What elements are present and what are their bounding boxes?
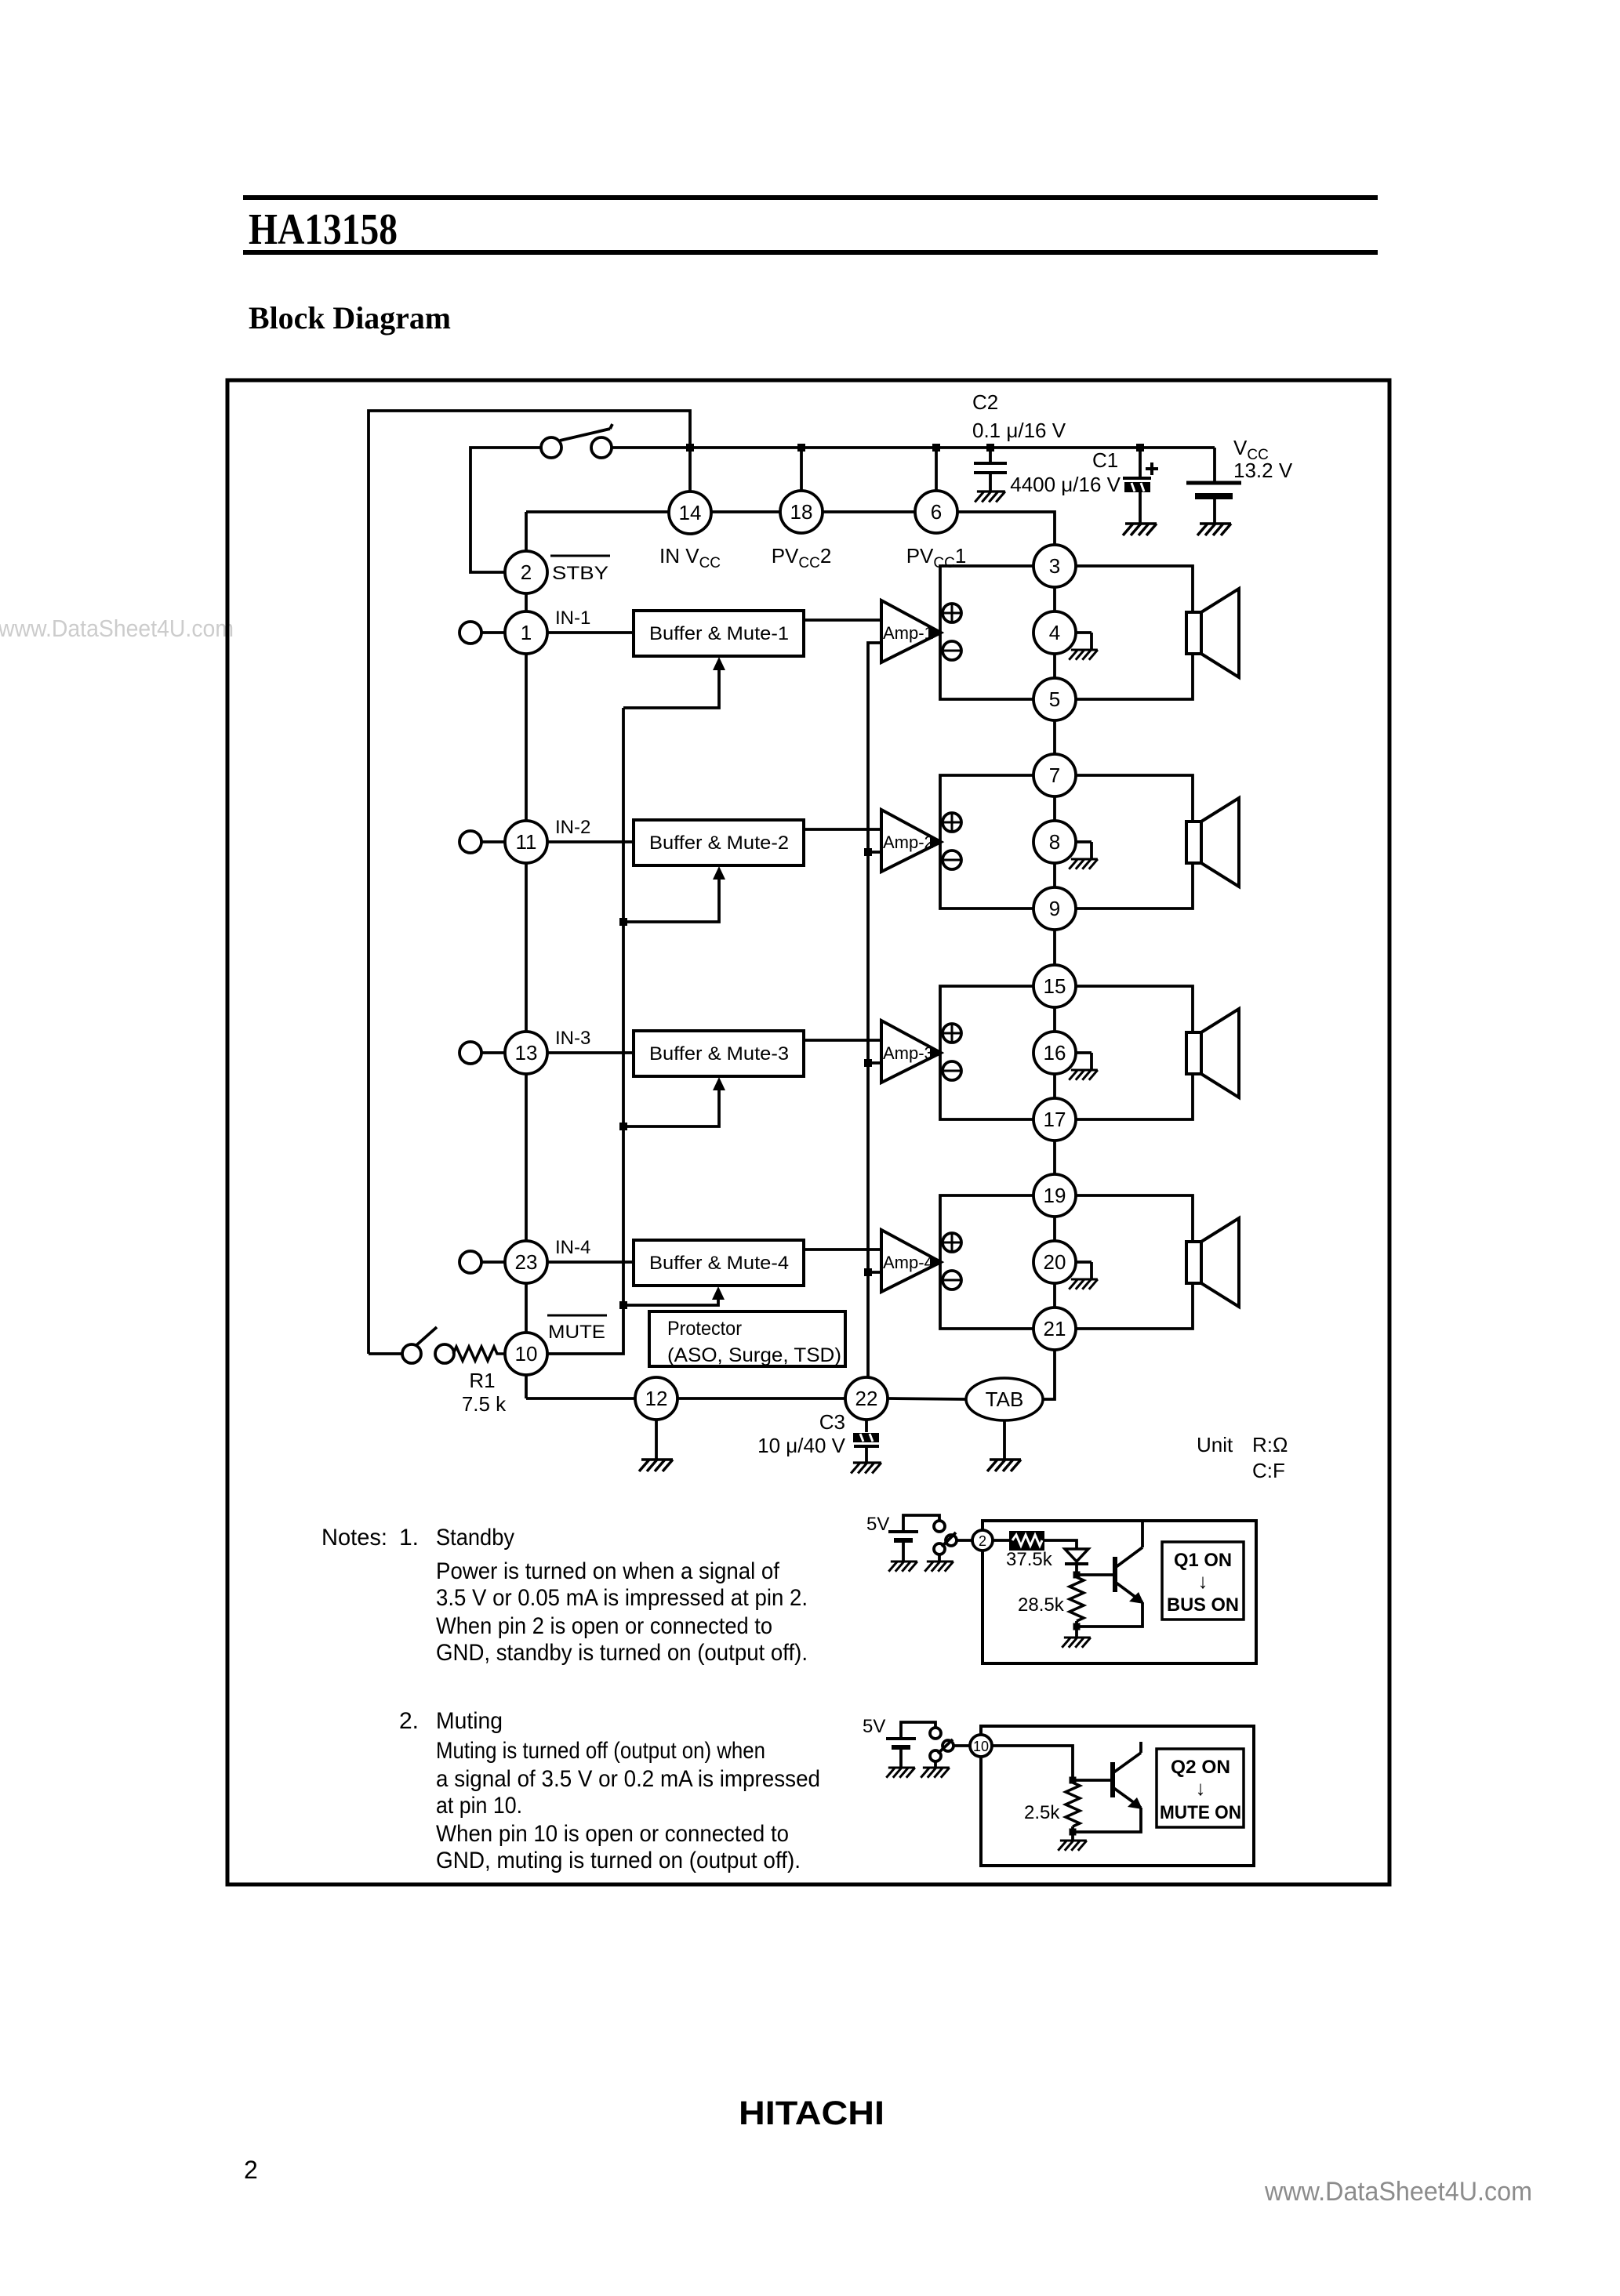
input terminal IN-2	[459, 831, 504, 853]
ground (note2 emitter)	[1058, 1841, 1087, 1851]
wire	[1053, 587, 1056, 611]
ground (C1)	[1123, 524, 1157, 535]
junction	[932, 444, 940, 452]
speaker ch2	[1186, 798, 1239, 887]
junction	[986, 444, 994, 452]
svg-text:5: 5	[1049, 687, 1060, 711]
pin 21	[1033, 1308, 1076, 1350]
svg-text:13.2 V: 13.2 V	[1233, 459, 1293, 482]
wire: buffer 4 to amp	[804, 1248, 881, 1251]
svg-text:Unit: Unit	[1197, 1433, 1233, 1456]
svg-text:2.5k: 2.5k	[1024, 1802, 1060, 1823]
svg-text:Amp-4: Amp-4	[883, 1253, 934, 1272]
wire	[953, 1744, 971, 1747]
svg-text:3: 3	[1049, 554, 1060, 578]
ground (note2 switch)	[921, 1768, 950, 1778]
pin 14	[669, 491, 711, 534]
svg-text:↓: ↓	[1198, 1569, 1208, 1593]
svg-text:Muting is turned off (output o: Muting is turned off (output on) when	[436, 1738, 765, 1764]
wire: feedback to amp 4	[868, 1271, 881, 1274]
note2: resistor 2.5k	[1024, 1783, 1080, 1826]
header top rule	[243, 195, 1378, 200]
svg-text:7.5 k: 7.5 k	[462, 1392, 507, 1416]
pin 5	[1033, 678, 1076, 720]
ground (pin 4)	[1069, 633, 1098, 660]
wire: pin 19 to speaker	[1076, 1195, 1193, 1242]
wire	[938, 1554, 941, 1561]
pin 11	[505, 821, 547, 863]
node + output ch1	[943, 604, 961, 622]
wire	[1053, 1007, 1056, 1032]
svg-text:IN VCC: IN VCC	[659, 544, 721, 571]
junction	[619, 1301, 627, 1309]
svg-text:11: 11	[516, 830, 537, 854]
wire	[1053, 1074, 1056, 1098]
input terminal IN-4	[459, 1251, 504, 1273]
svg-text:Buffer & Mute-1: Buffer & Mute-1	[649, 623, 789, 644]
wire: left pin column chain	[525, 593, 528, 1398]
svg-text:IN-2: IN-2	[555, 817, 590, 838]
svg-text:10: 10	[515, 1342, 538, 1366]
svg-text:R1: R1	[469, 1369, 495, 1392]
svg-text:9: 9	[1049, 897, 1060, 920]
svg-text:Q2 ON: Q2 ON	[1171, 1757, 1230, 1778]
svg-text:Amp-1: Amp-1	[883, 623, 934, 643]
ground (note1 battery)	[888, 1561, 917, 1572]
wire: channel chain	[1053, 930, 1056, 985]
node - output ch2	[943, 851, 961, 869]
wire: pin6 stub	[935, 448, 938, 491]
wire	[957, 1539, 973, 1542]
buffer & mute 3 box	[634, 1031, 804, 1076]
svg-text:C1: C1	[1092, 448, 1118, 472]
op-amp Amp-2	[881, 810, 941, 872]
junction	[864, 1268, 872, 1276]
note2: pin 10 terminal	[970, 1735, 992, 1757]
capacitor C1	[1010, 448, 1158, 524]
svg-text:3.5 V or 0.05 mA is impressed: 3.5 V or 0.05 mA is impressed at pin 2.	[436, 1585, 808, 1611]
svg-text:MUTE: MUTE	[548, 1322, 605, 1343]
svg-text:10: 10	[973, 1739, 989, 1754]
wire	[888, 1398, 966, 1399]
wire: pin 11 to buffer	[547, 840, 634, 843]
svg-text:2: 2	[979, 1533, 986, 1549]
ground (note1 emitter)	[1062, 1638, 1091, 1648]
ground (note1 switch)	[924, 1561, 953, 1572]
label R1 7.5k	[462, 1369, 507, 1416]
switch S2 (mute)	[402, 1327, 454, 1363]
note1: diode	[1065, 1549, 1088, 1564]
svg-text:23: 23	[515, 1250, 538, 1274]
amp 2 output arrow	[930, 836, 943, 847]
wire: pin18 stub	[800, 448, 803, 491]
notes text block	[321, 1525, 820, 1873]
wire	[1053, 1217, 1056, 1241]
wire	[992, 1746, 1073, 1783]
arrow into buffer 3	[713, 1077, 725, 1090]
node + output ch3	[943, 1024, 961, 1043]
svg-text:Q1 ON: Q1 ON	[1174, 1550, 1232, 1571]
wire	[1075, 1621, 1078, 1638]
wire: pin 17 to speaker	[1076, 1074, 1193, 1119]
wire: pin 15 to speaker	[1076, 986, 1193, 1032]
wire: buffer 2 to amp	[804, 828, 881, 831]
svg-text:Protector: Protector	[667, 1318, 742, 1340]
ground (battery)	[1197, 524, 1231, 535]
wire: pin 21 to speaker	[1076, 1283, 1193, 1329]
wire: pin 13 to buffer	[547, 1051, 634, 1054]
note2: enclosure box	[981, 1726, 1254, 1866]
wire: pin 7 to speaker	[1076, 775, 1193, 822]
svg-text:28.5k: 28.5k	[1018, 1594, 1065, 1616]
wire: pin 21 to TAB	[1044, 1350, 1055, 1399]
capacitor C3	[757, 1410, 879, 1463]
junction	[1070, 1777, 1077, 1784]
label STBY	[550, 556, 610, 584]
svg-text:HA13158: HA13158	[249, 205, 398, 254]
amp 4 output arrow	[930, 1257, 943, 1268]
svg-text:17: 17	[1044, 1108, 1066, 1131]
arrow into buffer 1	[713, 657, 725, 670]
op-amp Amp-3	[881, 1021, 941, 1083]
wire: mute branch ch4	[623, 1300, 718, 1305]
pin 6	[915, 491, 957, 533]
svg-text:21: 21	[1044, 1317, 1066, 1340]
junction	[797, 444, 805, 452]
wire	[1044, 1540, 1077, 1549]
junction	[1070, 1829, 1077, 1836]
junction	[864, 848, 872, 856]
pin 10	[505, 1333, 547, 1375]
TAB terminal	[966, 1378, 1043, 1420]
pin 9	[1033, 887, 1076, 930]
svg-text:IN-3: IN-3	[555, 1028, 590, 1049]
ground (pin 16)	[1069, 1053, 1098, 1080]
speaker ch1	[1186, 589, 1239, 677]
svg-text:4: 4	[1049, 621, 1060, 644]
svg-text:22: 22	[855, 1387, 878, 1410]
transistor Q2	[1073, 1742, 1142, 1832]
svg-text:2: 2	[244, 2156, 258, 2184]
wire: channel chain	[1053, 1141, 1056, 1195]
node - output ch1	[943, 641, 961, 660]
wire: pin 5 to speaker	[1076, 654, 1193, 699]
wire: pin12 ground stub	[655, 1420, 658, 1460]
svg-text:4400 μ/16 V: 4400 μ/16 V	[1010, 473, 1121, 496]
wire: base	[1077, 1573, 1113, 1576]
wire	[1053, 1283, 1056, 1308]
buffer & mute 1 box	[634, 611, 804, 656]
svg-text:↓: ↓	[1196, 1776, 1206, 1800]
transistor Q1	[1077, 1521, 1144, 1627]
pin 20	[1033, 1241, 1076, 1283]
pin 16	[1033, 1032, 1076, 1074]
note2: battery 5V	[886, 1722, 935, 1768]
svg-text:12: 12	[645, 1387, 668, 1410]
svg-text:When pin 10 is open or connect: When pin 10 is open or connected to	[436, 1821, 789, 1847]
svg-text:37.5k: 37.5k	[1006, 1549, 1053, 1570]
svg-text:8: 8	[1049, 830, 1060, 854]
note2: result box Q2 ON / MUTE ON	[1157, 1749, 1244, 1827]
wire: buffer 1 to amp	[804, 618, 881, 622]
buffer & mute 4 box	[634, 1240, 804, 1286]
pin 19	[1033, 1174, 1076, 1217]
svg-text:MUTE ON: MUTE ON	[1160, 1802, 1241, 1823]
node - output ch4	[943, 1271, 961, 1289]
svg-text:R:Ω: R:Ω	[1252, 1433, 1288, 1456]
pin 1	[505, 611, 547, 654]
wire	[1053, 654, 1056, 678]
svg-text:C3: C3	[819, 1410, 845, 1434]
svg-text:10 μ/40 V: 10 μ/40 V	[757, 1434, 845, 1457]
svg-text:20: 20	[1044, 1250, 1066, 1274]
wire	[1053, 796, 1056, 821]
ground (note2 battery)	[886, 1768, 915, 1778]
note1: resistor 28.5k	[1018, 1577, 1084, 1621]
arrow into buffer 2	[713, 866, 725, 880]
wire: IN Vcc row	[526, 510, 669, 513]
wire: feedback to amp 3	[868, 1061, 881, 1065]
pin 7	[1033, 754, 1076, 796]
junction	[864, 1059, 872, 1067]
svg-text:GND, standby is turned on (out: GND, standby is turned on (output off).	[436, 1640, 808, 1666]
wire: feedback to amp 2	[868, 851, 881, 854]
ground (C2)	[975, 491, 1005, 502]
svg-text:STBY: STBY	[552, 563, 608, 584]
wire: output bracket ch3	[940, 986, 1033, 1119]
pin 13	[505, 1032, 547, 1074]
svg-text:15: 15	[1044, 974, 1066, 998]
svg-text:TAB: TAB	[986, 1387, 1024, 1411]
speaker ch4	[1186, 1218, 1239, 1307]
pin 23	[505, 1241, 547, 1283]
wire: top-left loop to pin 14	[369, 411, 690, 1354]
note1: enclosure box	[983, 1521, 1256, 1663]
svg-text:Power is turned on when a sign: Power is turned on when a signal of	[436, 1558, 780, 1584]
svg-text:1.: 1.	[399, 1525, 419, 1551]
battery Vcc 13.2V	[1186, 436, 1293, 524]
svg-text:Amp-2: Amp-2	[883, 832, 934, 852]
wire: pin10 bottom to pin 12	[526, 1397, 634, 1400]
header bottom rule	[243, 250, 1378, 255]
pin 3	[1033, 545, 1076, 587]
wire: pin10 to mute distribution line	[547, 1305, 623, 1354]
pin 12	[635, 1377, 677, 1420]
wire	[1053, 863, 1056, 887]
svg-text:www.DataSheet4U.com: www.DataSheet4U.com	[1264, 2177, 1532, 2207]
pin 4	[1033, 611, 1076, 654]
wire: mute distribution vertical	[622, 708, 625, 1305]
note1: result box Q1 ON / BUS ON	[1162, 1542, 1244, 1620]
wire: pin 23 to buffer	[547, 1260, 634, 1264]
junction	[1073, 1623, 1081, 1630]
svg-text:a signal of 3.5 V or 0.2 mA is: a signal of 3.5 V or 0.2 mA is impressed	[436, 1766, 820, 1792]
arrow into buffer 4	[712, 1286, 725, 1300]
pin 17	[1033, 1098, 1076, 1141]
junction	[1136, 444, 1144, 452]
svg-text:Notes:: Notes:	[321, 1525, 387, 1551]
amp 1 output arrow	[930, 627, 943, 638]
ground (C3)	[851, 1463, 881, 1474]
wire	[1075, 1564, 1078, 1577]
svg-text:0.1 μ/16 V: 0.1 μ/16 V	[972, 419, 1066, 442]
input terminal IN-1	[459, 622, 504, 644]
node + output ch4	[943, 1233, 961, 1252]
wire: mute branch ch2	[623, 880, 719, 922]
note1: resistor 37.5k	[993, 1531, 1053, 1570]
wire: feedback bus to pin 22	[868, 643, 881, 1377]
wire: pin 3 to speaker	[1076, 566, 1193, 612]
svg-text:Amp-3: Amp-3	[883, 1043, 934, 1063]
svg-text:BUS ON: BUS ON	[1167, 1594, 1239, 1616]
label Unit	[1197, 1433, 1288, 1482]
pin 2	[505, 551, 547, 593]
wire	[678, 1397, 845, 1400]
svg-text:HITACHI: HITACHI	[739, 2095, 884, 2132]
node - output ch3	[943, 1061, 961, 1080]
wire: pin2 top stub	[525, 512, 528, 551]
note1: battery 5V	[888, 1515, 939, 1561]
svg-text:14: 14	[679, 501, 702, 524]
junction	[619, 1123, 627, 1130]
note1: pin 2 terminal	[972, 1530, 993, 1551]
pin 15	[1033, 965, 1076, 1007]
junction	[619, 918, 627, 926]
svg-text:6: 6	[931, 500, 942, 524]
svg-text:Block Diagram: Block Diagram	[249, 300, 451, 336]
wire: frame-left vertical to mute switch	[369, 1352, 401, 1355]
svg-text:2.: 2.	[399, 1708, 419, 1734]
wire: output bracket ch2	[940, 775, 1033, 909]
ground (pin 12)	[639, 1460, 673, 1471]
diagram frame	[227, 380, 1389, 1884]
resistor R1	[453, 1347, 504, 1361]
wire: pin2 to standby switch	[470, 448, 540, 572]
pin 22	[845, 1377, 888, 1420]
svg-text:5V: 5V	[866, 1514, 889, 1535]
junction	[1073, 1572, 1081, 1579]
speaker ch3	[1186, 1009, 1239, 1097]
svg-text:1: 1	[521, 621, 532, 644]
label MUTE	[547, 1315, 607, 1343]
wire: channel chain	[1053, 720, 1056, 775]
junction	[686, 444, 694, 452]
svg-text:C2: C2	[972, 390, 998, 414]
wire: mute branch ch3	[623, 1090, 719, 1126]
wire: buffer 3 to amp	[804, 1039, 881, 1042]
capacitor C2	[972, 390, 1066, 491]
node + output ch2	[943, 813, 961, 832]
svg-text:at pin 10.: at pin 10.	[436, 1793, 522, 1819]
svg-text:19: 19	[1044, 1184, 1066, 1207]
wire: output bracket ch1	[940, 566, 1033, 699]
svg-text:IN-4: IN-4	[555, 1237, 590, 1258]
protector box	[649, 1311, 845, 1366]
svg-text:IN-1: IN-1	[555, 608, 590, 629]
pin 8	[1033, 821, 1076, 863]
wire	[934, 1761, 937, 1768]
wire	[1071, 1826, 1074, 1841]
svg-text:Buffer & Mute-2: Buffer & Mute-2	[649, 832, 789, 854]
amp 3 output arrow	[930, 1047, 943, 1058]
ground (pin 20)	[1069, 1262, 1098, 1289]
ground (TAB)	[987, 1460, 1021, 1471]
svg-text:GND, muting is turned on (outp: GND, muting is turned on (output off).	[436, 1848, 801, 1873]
svg-text:www.DataSheet4U.com: www.DataSheet4U.com	[0, 615, 234, 642]
svg-text:C:F: C:F	[1252, 1459, 1285, 1482]
pin 18	[780, 491, 823, 533]
wire: TAB ground stub	[1003, 1420, 1006, 1460]
note1: switch	[934, 1521, 957, 1554]
wire: pin 9 to speaker	[1076, 863, 1193, 909]
note2: switch	[930, 1728, 953, 1761]
svg-text:18: 18	[790, 500, 813, 524]
input terminal IN-3	[459, 1042, 504, 1064]
op-amp Amp-4	[881, 1230, 941, 1292]
op-amp Amp-1	[881, 600, 941, 662]
svg-text:Buffer & Mute-4: Buffer & Mute-4	[649, 1253, 789, 1274]
buffer & mute 2 box	[634, 820, 804, 865]
svg-text:7: 7	[1049, 764, 1060, 787]
svg-text:2: 2	[521, 560, 532, 584]
svg-text:13: 13	[515, 1041, 538, 1065]
wire: top power bus	[612, 446, 1215, 449]
wire: base	[1073, 1779, 1110, 1782]
svg-text:Buffer & Mute-3: Buffer & Mute-3	[649, 1043, 789, 1065]
switch S1 (standby)	[541, 424, 612, 458]
svg-text:(ASO, Surge, TSD): (ASO, Surge, TSD)	[667, 1344, 841, 1366]
svg-text:Standby: Standby	[436, 1525, 514, 1551]
ground (pin 8)	[1069, 842, 1098, 869]
wire: output bracket ch4	[940, 1195, 1033, 1329]
svg-text:16: 16	[1044, 1041, 1066, 1065]
wire: mute branch ch1	[623, 670, 719, 708]
svg-text:5V: 5V	[863, 1716, 885, 1737]
svg-text:Muting: Muting	[436, 1708, 503, 1734]
svg-text:When pin 2 is open or connecte: When pin 2 is open or connected to	[436, 1613, 772, 1639]
wire: pin 1 to buffer	[547, 631, 634, 634]
svg-text:PVCC2: PVCC2	[772, 544, 832, 571]
